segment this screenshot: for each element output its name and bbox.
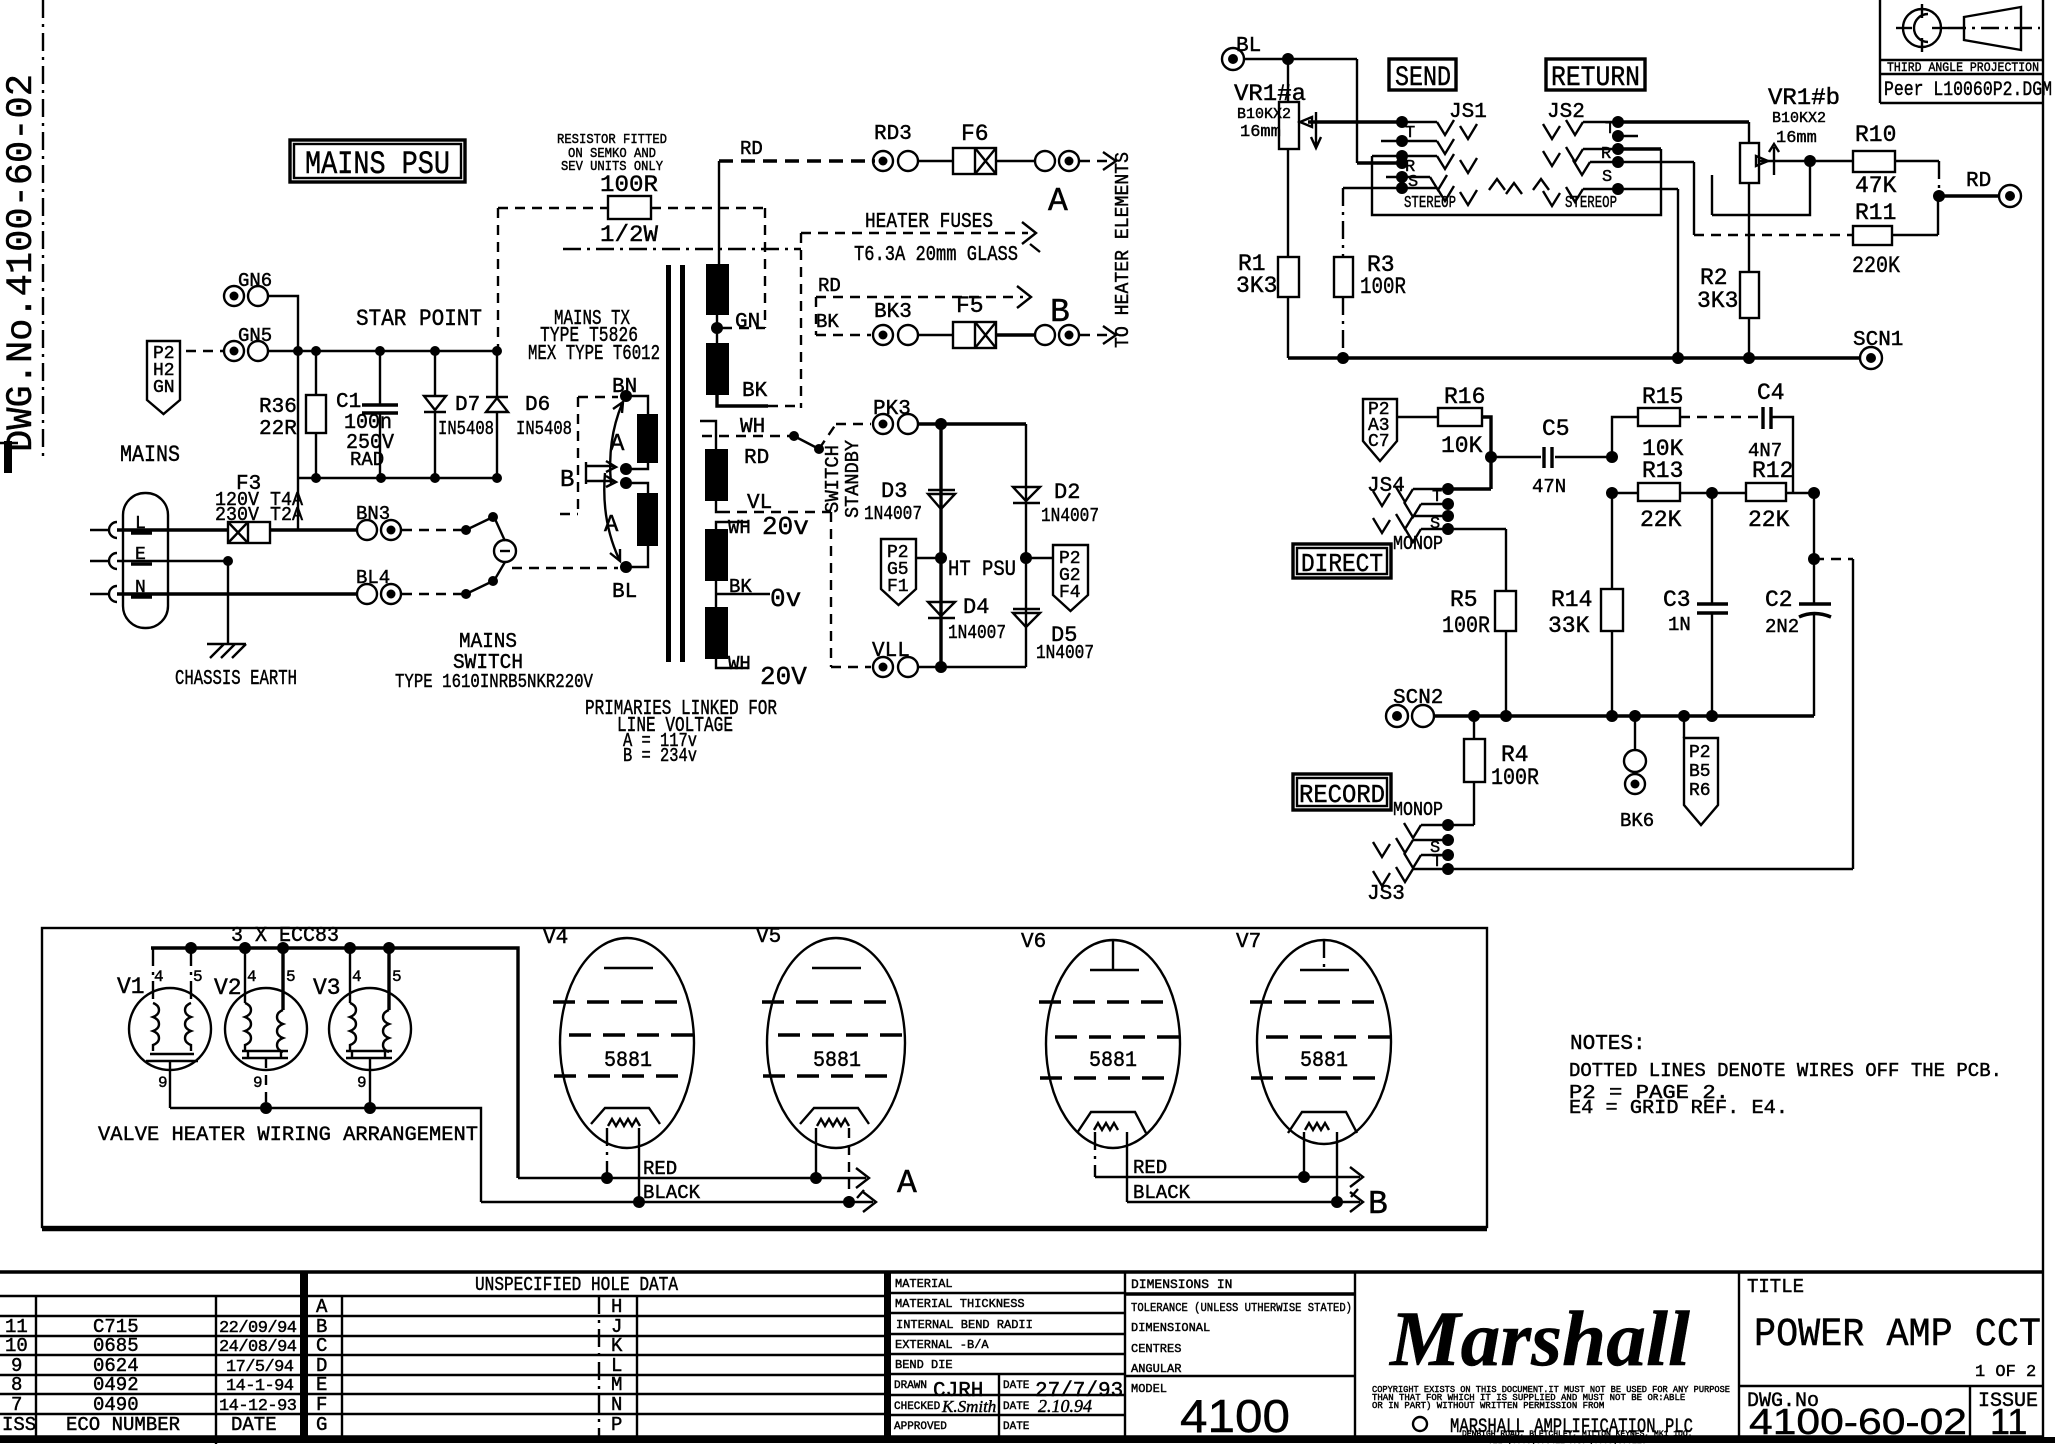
svg-text:100R: 100R <box>1360 274 1406 300</box>
svg-text:RD: RD <box>1966 170 1991 193</box>
svg-text:P2: P2 <box>1689 743 1711 763</box>
svg-text:OR IN PART) WITHOUT WRITTEN PE: OR IN PART) WITHOUT WRITTEN PERMISSION F… <box>1372 1401 1604 1411</box>
svg-text:BL: BL <box>1236 35 1261 58</box>
svg-text:APPROVED: APPROVED <box>894 1421 947 1433</box>
svg-text:DATE: DATE <box>231 1414 277 1436</box>
svg-text:GN: GN <box>153 378 175 398</box>
svg-text:V1: V1 <box>117 974 145 1000</box>
svg-text:BL4: BL4 <box>356 567 390 589</box>
svg-text:33K: 33K <box>1548 613 1590 639</box>
svg-text:3K3: 3K3 <box>1236 273 1277 299</box>
svg-text:100R: 100R <box>1491 765 1539 791</box>
svg-text:H: H <box>611 1296 622 1318</box>
svg-text:IN5408: IN5408 <box>438 418 494 440</box>
svg-text:R6: R6 <box>1689 781 1711 801</box>
svg-text:STEREOP: STEREOP <box>1404 194 1456 213</box>
svg-text:HT PSU: HT PSU <box>948 557 1016 582</box>
svg-text:B: B <box>1368 1186 1388 1223</box>
svg-text:B10KX2: B10KX2 <box>1772 110 1826 127</box>
svg-text:9: 9 <box>253 1074 263 1092</box>
svg-text:NOTES:: NOTES: <box>1570 1033 1646 1056</box>
svg-text:T6.3A 20mm GLASS: T6.3A 20mm GLASS <box>854 244 1018 267</box>
svg-text:EXTERNAL -B/A: EXTERNAL -B/A <box>895 1338 989 1352</box>
svg-text:R10: R10 <box>1855 122 1896 148</box>
svg-text:A: A <box>897 1165 917 1202</box>
svg-text:24/08/94: 24/08/94 <box>219 1338 297 1357</box>
svg-text:T: T <box>1432 488 1442 507</box>
svg-text:V7: V7 <box>1236 931 1261 954</box>
svg-text:10K: 10K <box>1441 433 1483 459</box>
svg-text:5881: 5881 <box>1300 1048 1348 1073</box>
svg-text:BK6: BK6 <box>1620 810 1654 832</box>
svg-text:DATE: DATE <box>1003 1421 1030 1433</box>
svg-text:8: 8 <box>11 1374 22 1396</box>
svg-text:5881: 5881 <box>604 1048 652 1073</box>
svg-text:CENTRES: CENTRES <box>1131 1342 1181 1356</box>
svg-text:RETURN: RETURN <box>1551 63 1640 94</box>
svg-text:TITLE: TITLE <box>1747 1276 1804 1298</box>
svg-text:E: E <box>316 1374 327 1396</box>
svg-text:CHASSIS EARTH: CHASSIS EARTH <box>175 668 297 691</box>
svg-text:V6: V6 <box>1021 931 1046 954</box>
svg-text:V5: V5 <box>756 926 781 949</box>
svg-text:Peer L10060P2.DGM: Peer L10060P2.DGM <box>1884 79 2052 102</box>
svg-text:2N2: 2N2 <box>1765 616 1799 638</box>
svg-text:DOTTED LINES DENOTE WIRES OFF: DOTTED LINES DENOTE WIRES OFF THE PCB. <box>1569 1060 2002 1082</box>
svg-text:4100: 4100 <box>1180 1390 1290 1442</box>
svg-text:ANGULAR: ANGULAR <box>1131 1362 1181 1376</box>
svg-text:STANDBY: STANDBY <box>842 439 864 518</box>
svg-text:Marshall: Marshall <box>1388 1295 1690 1382</box>
svg-text:RECORD: RECORD <box>1299 780 1385 810</box>
svg-text:N: N <box>611 1394 622 1416</box>
svg-text:D3: D3 <box>881 479 907 504</box>
svg-text:5: 5 <box>286 968 296 986</box>
svg-text:1 OF 2: 1 OF 2 <box>1975 1363 2036 1382</box>
svg-text:10: 10 <box>5 1335 28 1357</box>
svg-text:F4: F4 <box>1059 583 1081 603</box>
svg-text:MONOP: MONOP <box>1393 533 1443 555</box>
svg-text:C7: C7 <box>1368 432 1390 452</box>
svg-text:F5: F5 <box>956 293 984 319</box>
svg-text:R13: R13 <box>1642 458 1683 484</box>
svg-text:P: P <box>611 1414 622 1436</box>
svg-text:22R: 22R <box>259 418 297 441</box>
svg-text:1N4007: 1N4007 <box>948 622 1006 644</box>
svg-text:RAD: RAD <box>350 449 384 471</box>
svg-text:17/5/94: 17/5/94 <box>226 1358 294 1377</box>
svg-text:WH: WH <box>728 517 751 539</box>
svg-text:R15: R15 <box>1642 384 1683 410</box>
svg-text:B = 234v: B = 234v <box>623 745 697 767</box>
svg-text:5881: 5881 <box>1089 1048 1137 1073</box>
svg-text:D7: D7 <box>455 394 480 417</box>
svg-text:ISS: ISS <box>2 1414 36 1436</box>
svg-text:IN5408: IN5408 <box>516 418 572 440</box>
svg-text:V3: V3 <box>313 975 341 1001</box>
svg-text:K.Smith: K.Smith <box>941 1397 996 1416</box>
svg-text:C: C <box>316 1335 327 1357</box>
svg-text:4: 4 <box>154 968 164 986</box>
svg-text:UNSPECIFIED HOLE DATA: UNSPECIFIED HOLE DATA <box>475 1274 678 1296</box>
svg-text:C2: C2 <box>1765 587 1793 613</box>
svg-text:CHECKED: CHECKED <box>894 1401 941 1413</box>
svg-text:S: S <box>1430 515 1440 534</box>
svg-text:230V T2A: 230V T2A <box>215 504 304 526</box>
svg-text:THIRD ANGLE PROJECTION: THIRD ANGLE PROJECTION <box>1887 60 2039 75</box>
svg-text:TYPE 1610INRB5NKR220V: TYPE 1610INRB5NKR220V <box>395 671 593 693</box>
svg-text:V4: V4 <box>543 927 568 950</box>
svg-text:STAR POINT: STAR POINT <box>356 306 482 332</box>
svg-text:RED: RED <box>1133 1157 1167 1179</box>
svg-text:1N: 1N <box>1668 614 1691 636</box>
svg-text:DIMENSIONS IN: DIMENSIONS IN <box>1131 1277 1232 1292</box>
svg-text:V2: V2 <box>214 975 242 1001</box>
svg-text:MATERIAL THICKNESS: MATERIAL THICKNESS <box>895 1297 1025 1311</box>
svg-text:7: 7 <box>11 1394 22 1416</box>
svg-text:BN: BN <box>612 376 637 399</box>
svg-text:INTERNAL BEND RADII: INTERNAL BEND RADII <box>896 1318 1033 1332</box>
svg-text:B: B <box>560 467 574 494</box>
svg-text:MODEL: MODEL <box>1131 1382 1167 1396</box>
svg-text:MATERIAL: MATERIAL <box>895 1277 953 1291</box>
svg-text:1/2W: 1/2W <box>600 222 658 248</box>
svg-text:0490: 0490 <box>93 1394 139 1416</box>
svg-text:A: A <box>316 1296 328 1318</box>
svg-text:GN5: GN5 <box>238 325 272 347</box>
svg-text:47N: 47N <box>1532 476 1566 498</box>
svg-text:1N4007: 1N4007 <box>1036 642 1094 664</box>
svg-text:22/09/94: 22/09/94 <box>219 1319 297 1338</box>
svg-text:M: M <box>611 1374 622 1396</box>
svg-text:S: S <box>1602 168 1612 187</box>
svg-text:3K3: 3K3 <box>1697 288 1738 314</box>
svg-text:B: B <box>1050 294 1070 331</box>
svg-text:DWG.No.4100-60-02: DWG.No.4100-60-02 <box>1 74 43 452</box>
svg-text:0492: 0492 <box>93 1374 139 1396</box>
svg-text:5: 5 <box>193 968 203 986</box>
svg-text:D4: D4 <box>963 595 989 620</box>
svg-text:16mm: 16mm <box>1776 129 1817 148</box>
svg-text:D6: D6 <box>525 394 550 417</box>
svg-text:SWITCH: SWITCH <box>822 445 844 513</box>
svg-text:R14: R14 <box>1551 587 1592 613</box>
svg-text:TOLERANCE (UNLESS UTHERWISE ST: TOLERANCE (UNLESS UTHERWISE STATED) <box>1131 1301 1352 1315</box>
svg-text:11: 11 <box>1990 1401 2027 1442</box>
svg-text:14-1-94: 14-1-94 <box>226 1377 294 1396</box>
svg-text:MAINS PSU: MAINS PSU <box>305 146 450 183</box>
svg-text:BK: BK <box>729 576 752 598</box>
svg-text:F1: F1 <box>887 577 909 597</box>
svg-text:20v: 20v <box>762 512 809 542</box>
svg-text:BLACK: BLACK <box>1133 1182 1191 1204</box>
svg-text:E4 = GRID REF. E4.: E4 = GRID REF. E4. <box>1569 1097 1788 1119</box>
svg-text:R36: R36 <box>259 396 297 419</box>
svg-text:BEND DIE: BEND DIE <box>895 1358 953 1372</box>
svg-text:C1: C1 <box>336 391 361 414</box>
svg-text:SEND: SEND <box>1395 63 1451 94</box>
svg-text:C3: C3 <box>1663 587 1691 613</box>
svg-text:C4: C4 <box>1757 380 1785 406</box>
svg-text:POWER AMP CCT: POWER AMP CCT <box>1754 1313 2041 1358</box>
svg-text:47K: 47K <box>1855 173 1897 199</box>
svg-text:TEL (0908)375411 FAX (0908)376: TEL (0908)375411 FAX (0908)376118 <box>1488 1437 1647 1444</box>
svg-text:22K: 22K <box>1748 507 1790 533</box>
svg-text:4: 4 <box>247 968 257 986</box>
svg-text:1N4007: 1N4007 <box>1041 505 1099 527</box>
svg-text:R16: R16 <box>1444 384 1485 410</box>
svg-text:B5: B5 <box>1689 762 1711 782</box>
svg-text:F6: F6 <box>961 121 989 147</box>
svg-text:BK: BK <box>816 311 839 333</box>
svg-text:MEX TYPE T6012: MEX TYPE T6012 <box>528 343 660 366</box>
svg-text:K: K <box>611 1335 623 1357</box>
svg-text:BN3: BN3 <box>356 503 390 525</box>
svg-text:JS3: JS3 <box>1367 883 1405 906</box>
svg-text:BK: BK <box>742 380 768 403</box>
svg-text:4100-60-02: 4100-60-02 <box>1749 1401 1967 1442</box>
svg-text:TO HEATER ELEMENTS: TO HEATER ELEMENTS <box>1112 152 1134 348</box>
svg-text:RD: RD <box>744 447 769 470</box>
svg-text:R12: R12 <box>1752 458 1793 484</box>
svg-text:9: 9 <box>158 1074 168 1092</box>
svg-text:DATE: DATE <box>1003 1401 1030 1413</box>
svg-text:0v: 0v <box>770 584 801 614</box>
svg-text:ECO NUMBER: ECO NUMBER <box>66 1414 180 1436</box>
svg-text:1N4007: 1N4007 <box>864 503 922 525</box>
svg-text:20V: 20V <box>760 662 807 692</box>
svg-text:D2: D2 <box>1054 480 1080 505</box>
svg-text:100R: 100R <box>600 172 658 198</box>
svg-text:R5: R5 <box>1450 587 1478 613</box>
svg-text:22K: 22K <box>1640 507 1682 533</box>
svg-text:C5: C5 <box>1542 416 1570 442</box>
svg-text:B10KX2: B10KX2 <box>1237 106 1291 123</box>
svg-text:WH: WH <box>728 653 751 675</box>
svg-text:5881: 5881 <box>813 1048 861 1073</box>
svg-text:VR1#b: VR1#b <box>1768 85 1840 111</box>
svg-text:A: A <box>1048 183 1068 220</box>
svg-text:9: 9 <box>357 1074 367 1092</box>
svg-text:DATE: DATE <box>1003 1380 1030 1392</box>
svg-text:GN6: GN6 <box>238 270 272 292</box>
svg-text:4: 4 <box>352 968 362 986</box>
svg-text:RD: RD <box>740 138 763 160</box>
svg-text:BL: BL <box>612 581 637 604</box>
svg-text:RD: RD <box>818 275 841 297</box>
svg-text:HEATER FUSES: HEATER FUSES <box>865 211 993 234</box>
svg-text:GN: GN <box>735 311 760 334</box>
svg-text:RED: RED <box>643 1158 677 1180</box>
svg-text:RD3: RD3 <box>874 123 912 146</box>
svg-text:BK3: BK3 <box>874 301 912 324</box>
svg-text:220K: 220K <box>1852 253 1900 279</box>
svg-text:16mm: 16mm <box>1240 123 1281 142</box>
svg-text:100R: 100R <box>1442 613 1490 639</box>
svg-text:F: F <box>316 1394 327 1416</box>
svg-text:G: G <box>316 1414 327 1436</box>
svg-text:R11: R11 <box>1855 200 1896 226</box>
svg-text:DIRECT: DIRECT <box>1301 549 1383 579</box>
svg-text:0685: 0685 <box>93 1335 139 1357</box>
svg-text:DRAWN: DRAWN <box>894 1380 927 1392</box>
svg-text:5: 5 <box>392 968 402 986</box>
svg-text:MAINS: MAINS <box>459 631 517 654</box>
svg-text:DIMENSIONAL: DIMENSIONAL <box>1131 1321 1210 1335</box>
svg-text:VALVE HEATER WIRING ARRANGEMEN: VALVE HEATER WIRING ARRANGEMENT <box>98 1124 478 1147</box>
svg-text:2.10.94: 2.10.94 <box>1038 1396 1092 1416</box>
svg-text:MONOP: MONOP <box>1393 799 1443 821</box>
svg-text:MAINS: MAINS <box>120 442 180 468</box>
svg-text:BLACK: BLACK <box>643 1182 701 1204</box>
svg-text:STEREOP: STEREOP <box>1565 194 1617 213</box>
